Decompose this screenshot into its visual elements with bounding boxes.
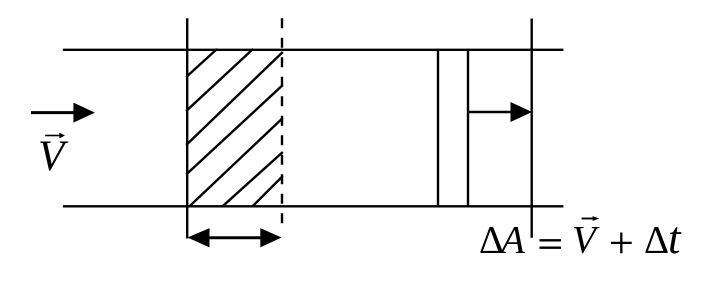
svg-text:V: V	[572, 219, 600, 262]
vector arrow over equation V	[582, 216, 600, 221]
equals sign	[540, 240, 562, 247]
vector V label	[38, 133, 69, 180]
pipe bottom wall	[63, 205, 564, 207]
plus sign	[611, 233, 632, 254]
svg-text:V: V	[38, 133, 69, 180]
svg-text:t: t	[668, 213, 682, 263]
equation delta-A = V + delta-t	[479, 213, 682, 263]
svg-text:A: A	[498, 219, 525, 262]
pipe top wall	[63, 49, 564, 51]
left section line	[186, 18, 188, 238]
hatched fluid slab	[186, 49, 283, 207]
displacement double arrow	[188, 228, 282, 247]
right section line	[531, 19, 533, 238]
dashed section line	[281, 18, 283, 228]
inflow velocity arrow	[31, 103, 95, 123]
piston left face	[437, 49, 439, 207]
svg-text:Δ: Δ	[644, 219, 669, 262]
piston right face	[467, 49, 469, 207]
piston velocity arrow	[468, 102, 532, 122]
